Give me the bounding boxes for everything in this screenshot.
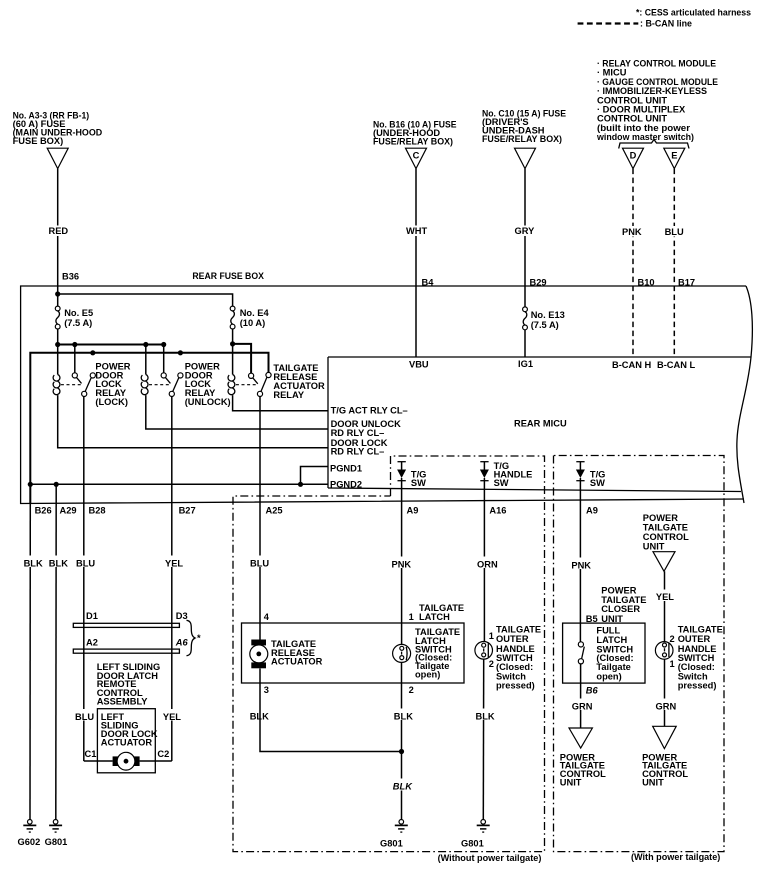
svg-text:BLK: BLK (393, 782, 413, 792)
svg-text:B-CAN L: B-CAN L (657, 360, 696, 370)
label WHT (wire gap) (404, 226, 429, 237)
node bus2 dots (90, 350, 183, 355)
svg-text:G801: G801 (461, 839, 484, 849)
bracket over D and E triangles (619, 140, 689, 149)
svg-text:2: 2 (670, 634, 675, 644)
wire E13 to MICU IG1 (524, 330, 526, 357)
ground G801 (latch switch) (380, 820, 408, 849)
svg-text:UNIT: UNIT (601, 614, 623, 624)
svg-text:RD RLY CL–: RD RLY CL– (331, 446, 385, 456)
svg-text:D3: D3 (176, 611, 188, 621)
node B36 junction dot (55, 291, 60, 296)
label GRN (full latch) (569, 699, 593, 712)
label YEL (power tailgate) (654, 590, 676, 603)
power tailgate closer unit label (601, 586, 646, 624)
wire E5 to bus (57, 329, 59, 375)
svg-text:PGND1: PGND1 (330, 463, 362, 473)
label PNK (wire gap) (620, 226, 644, 237)
svg-text:open): open) (415, 670, 440, 680)
wire T/G relay coil to MICU T/G ACT RLY CL (233, 395, 328, 411)
svg-text:FUSE/RELAY BOX): FUSE/RELAY BOX) (373, 136, 453, 146)
label ORN (A16) (475, 557, 499, 570)
power door lock relay (LOCK) (53, 345, 131, 407)
fuse A3-3 label (13, 110, 103, 146)
fuse C10 label (482, 109, 566, 144)
svg-text:YEL: YEL (656, 592, 674, 602)
wire BLU B17 dashed B-CAN (673, 169, 675, 357)
svg-text:GRN: GRN (572, 702, 593, 712)
connector triangle (fuse C10) (515, 148, 536, 168)
tailgate outer handle switch label (496, 625, 541, 691)
node E4 feed junction dot (230, 341, 235, 346)
label BLK italic (ground wire) (391, 779, 414, 792)
MICU pin label DOOR UNLOCK RD RLY CL (331, 419, 402, 438)
svg-text:(LOCK): (LOCK) (95, 397, 128, 407)
svg-text:CONTROL: CONTROL (643, 532, 689, 542)
svg-text:open): open) (596, 672, 621, 682)
label PNK (A9 full latch) (569, 558, 593, 571)
svg-text:ASSEMBLY: ASSEMBLY (97, 697, 149, 707)
svg-text:G801: G801 (45, 837, 68, 847)
fuse E5 (7.5 A) (55, 306, 93, 329)
wire C2 YEL into actuator motor (140, 760, 172, 762)
svg-text:B5: B5 (586, 614, 598, 624)
svg-text:: B-CAN line: : B-CAN line (640, 19, 692, 29)
svg-text:C2: C2 (157, 749, 169, 759)
motor (left sliding door lock actuator) (113, 752, 140, 770)
tailgate latch box (242, 623, 465, 683)
svg-text:T/G ACT RLY CL–: T/G ACT RLY CL– (331, 405, 408, 415)
svg-text:B36: B36 (62, 272, 79, 282)
svg-text:G602: G602 (18, 837, 41, 847)
power tailgate control unit label (top) (643, 513, 689, 552)
svg-text:1: 1 (489, 631, 494, 641)
wire RED B36 vertical (57, 169, 59, 307)
svg-text:2: 2 (489, 659, 494, 669)
svg-text:FUSE BOX): FUSE BOX) (13, 136, 64, 146)
svg-text:(Without power tailgate): (Without power tailgate) (438, 853, 542, 863)
svg-text:PGND2: PGND2 (330, 479, 362, 489)
svg-text:(10 A): (10 A) (240, 318, 266, 328)
svg-text:SW: SW (411, 478, 426, 488)
label BLU (B28) (74, 556, 95, 569)
legend: B-CAN line sample dashes (578, 22, 639, 24)
CESS brace and asterisk (187, 620, 202, 655)
T/G SW input symbol (tailgate latch switch input) (397, 462, 426, 488)
svg-text:RD RLY CL–: RD RLY CL– (331, 428, 385, 438)
wire PNK B10 dashed B-CAN (632, 169, 634, 357)
left sliding door latch remote control assembly label (97, 662, 161, 707)
svg-text:A9: A9 (407, 506, 419, 516)
svg-text:TAILGATE: TAILGATE (496, 625, 541, 635)
svg-text:OUTER: OUTER (496, 634, 529, 644)
label BLU (A25) (248, 556, 269, 569)
wire B36 to fuse E4 horizontal (58, 294, 233, 308)
wire A25 from T/G relay common (259, 397, 261, 640)
svg-text:C: C (413, 151, 420, 161)
svg-text:BLK: BLK (49, 559, 68, 569)
svg-text:IG1: IG1 (518, 359, 533, 369)
full latch switch symbol (578, 642, 584, 664)
wire actuator pin3 to latch switch ground wire (260, 669, 402, 752)
tailgate latch switch label (415, 627, 460, 680)
tailgate outer handle switch label (with power tailgate) (678, 625, 723, 691)
svg-text:(7.5 A): (7.5 A) (531, 320, 559, 330)
label BLK (B26) (21, 556, 43, 569)
svg-text:D: D (630, 151, 637, 161)
svg-text:4: 4 (264, 612, 270, 622)
wire A29 BLK to G801 (55, 484, 57, 819)
svg-text:LATCH: LATCH (596, 635, 627, 645)
tailgate release actuator label (271, 639, 323, 667)
svg-text:A2: A2 (86, 638, 98, 648)
svg-text:1: 1 (409, 612, 414, 622)
T/G HANDLE SW input symbol (480, 461, 532, 488)
label BLU (C1) (73, 709, 95, 722)
svg-text:B26: B26 (35, 506, 52, 516)
tailgate outer handle switch symbol (without power tailgate) (475, 642, 493, 660)
wire WHT B4 vertical (415, 169, 417, 357)
svg-text:2: 2 (409, 685, 414, 695)
svg-text:RELAY: RELAY (273, 390, 304, 400)
label BLK (A29) (47, 556, 69, 569)
svg-text:POWER: POWER (643, 513, 678, 523)
fuse B16 label (373, 120, 457, 147)
svg-text:REAR FUSE BOX: REAR FUSE BOX (192, 271, 264, 281)
control modules list label (596, 59, 718, 143)
svg-text:BLK: BLK (24, 559, 43, 569)
T/G SW input symbol (power tailgate variant) (576, 462, 606, 488)
svg-text:BLU: BLU (665, 227, 684, 237)
wire A9 PNK (full latch switch) (579, 478, 581, 644)
svg-text:No. E4: No. E4 (240, 308, 270, 318)
svg-text:SW: SW (590, 478, 605, 488)
svg-text:RED: RED (49, 226, 69, 236)
svg-text:BLU: BLU (250, 559, 269, 569)
svg-text:pressed): pressed) (678, 681, 717, 691)
svg-text:BLU: BLU (75, 712, 94, 722)
dash-dot harness box (without power tailgate) (233, 456, 545, 852)
label GRN (power handle) (653, 699, 677, 712)
svg-text:*: CESS articulated harness: *: CESS articulated harness (636, 8, 751, 18)
svg-text:REAR MICU: REAR MICU (514, 419, 567, 429)
svg-text:E: E (671, 151, 677, 161)
label PNK (A9 latch) (389, 557, 413, 570)
svg-text:YEL: YEL (163, 712, 181, 722)
svg-text:*: * (197, 633, 201, 643)
node junction dot at ground wire (399, 749, 404, 754)
svg-text:TAILGATE: TAILGATE (678, 625, 723, 635)
svg-text:VBU: VBU (409, 360, 429, 370)
tailgate release actuator relay (228, 363, 325, 400)
MICU pin label DOOR LOCK RD RLY CL (331, 438, 388, 457)
wire UNLOCK relay coil to MICU DOOR UNLOCK RD RLY CL (146, 395, 328, 429)
node PGND junction dots (28, 482, 303, 487)
fuse E13 (7.5 A) (523, 307, 565, 330)
svg-text:(With power tailgate): (With power tailgate) (631, 852, 720, 862)
full latch switch label (596, 626, 633, 682)
svg-text:A29: A29 (60, 506, 77, 516)
svg-text:GRN: GRN (656, 702, 677, 712)
wire PGND2 to ground wires (30, 483, 328, 485)
wire LOCK relay coil to MICU DOOR LOCK RD RLY CL (58, 395, 328, 448)
svg-text:PNK: PNK (392, 560, 412, 570)
CESS connector bar D1/D3 (73, 623, 179, 627)
wire B27 from UNLOCK relay common (171, 397, 173, 762)
label YEL (B27) (163, 556, 183, 569)
wire handle switch to ground (482, 659, 484, 819)
rear fuse box outline (21, 271, 753, 504)
rear MICU box (328, 357, 751, 492)
svg-text:3: 3 (264, 685, 269, 695)
svg-text:UNIT: UNIT (560, 778, 582, 788)
svg-text:D1: D1 (86, 611, 98, 621)
wire YEL from power tailgate control unit (664, 571, 666, 642)
wire A16 ORN (tailgate outer handle switch) (483, 478, 485, 642)
svg-text:window master switch): window master switch) (596, 132, 694, 142)
svg-text:No. E5: No. E5 (64, 308, 93, 318)
svg-text:(Closed:: (Closed: (678, 662, 715, 672)
svg-text:ACTUATOR: ACTUATOR (271, 657, 323, 667)
ground G602 (18, 820, 41, 848)
label BLU (wire gap) (663, 226, 686, 237)
svg-text:C1: C1 (85, 749, 97, 759)
connector triangle (power tailgate control unit, handle) (653, 726, 677, 748)
svg-text:B-CAN H: B-CAN H (612, 360, 652, 370)
label RED (wire gap) (47, 226, 69, 237)
svg-text:ACTUATOR: ACTUATOR (101, 738, 153, 748)
dash-dot harness box (with power tailgate) (554, 456, 725, 852)
svg-text:WHT: WHT (406, 226, 427, 236)
label BLK (handle switch) (473, 709, 495, 722)
motor (tailgate release actuator) (250, 640, 268, 669)
svg-text:ORN: ORN (477, 560, 498, 570)
svg-text:BLU: BLU (76, 559, 95, 569)
connector triangle (power tailgate control unit, full latch) (569, 728, 592, 748)
svg-text:Tailgate: Tailgate (596, 662, 630, 672)
svg-text:pressed): pressed) (496, 681, 535, 691)
wire C1 BLU into actuator motor (84, 760, 113, 762)
svg-text:FUSE/RELAY BOX): FUSE/RELAY BOX) (482, 134, 562, 144)
wire A9 PNK (tailgate latch switch) (401, 478, 403, 645)
connector triangle E (664, 148, 685, 168)
bus from fuse E5 to door lock relays (58, 344, 164, 346)
ground G801 (handle switch) (461, 820, 490, 849)
svg-text:B6: B6 (586, 686, 599, 696)
fuse E4 (10 A) (230, 306, 269, 329)
svg-text:BLK: BLK (394, 712, 413, 722)
svg-text:A6: A6 (175, 638, 189, 648)
label YEL (C2) (161, 709, 182, 722)
left sliding door lock actuator label (101, 712, 158, 748)
tailgate outer handle switch symbol (with power tailgate) (655, 642, 673, 660)
power tailgate control unit label (handle) (642, 752, 688, 787)
svg-text:(7.5 A): (7.5 A) (64, 318, 92, 328)
svg-text:POWER: POWER (601, 586, 636, 596)
wire B6 GRN to power tailgate control unit (580, 664, 582, 728)
wire GRY B29 vertical (524, 169, 526, 307)
connector triangle (power tailgate control unit, top) (653, 552, 675, 572)
wire latch switch to ground (401, 663, 403, 820)
svg-text:No. E13: No. E13 (531, 310, 565, 320)
svg-text:YEL: YEL (165, 559, 183, 569)
svg-text:1: 1 (670, 659, 675, 669)
wire PGND1 stub (301, 467, 329, 485)
svg-text:GRY: GRY (515, 226, 536, 236)
svg-text:G801: G801 (380, 839, 403, 849)
CESS connector bar A2/A6 (73, 649, 179, 653)
svg-text:PNK: PNK (622, 227, 642, 237)
wire E4 down to relay feed (232, 329, 234, 375)
svg-text:SW: SW (494, 478, 509, 488)
svg-text:LATCH: LATCH (419, 612, 450, 622)
svg-text:A25: A25 (266, 506, 283, 516)
wire B28 from LOCK relay common (83, 397, 85, 762)
svg-text:B28: B28 (89, 506, 106, 516)
full latch switch box (563, 623, 645, 683)
wire E4 feed to T/G relay contact (233, 344, 252, 373)
connector triangle A (fuse A3-3) (47, 148, 68, 168)
svg-text:B27: B27 (179, 506, 196, 516)
power tailgate control unit label (full latch) (560, 752, 606, 787)
svg-text:(Closed:: (Closed: (496, 662, 533, 672)
tailgate latch label (419, 603, 464, 622)
svg-text:BLK: BLK (476, 712, 495, 722)
svg-text:UNIT: UNIT (643, 542, 665, 552)
svg-text:TAILGATE: TAILGATE (643, 522, 688, 532)
svg-text:OUTER: OUTER (678, 634, 711, 644)
wire GRN to power tailgate control unit (handle) (664, 659, 666, 726)
label GRY (wire gap) (512, 226, 535, 237)
left sliding door lock actuator box (97, 709, 155, 773)
connector triangle C (fuse B16) (406, 148, 427, 168)
label BLK (actuator) (248, 709, 270, 722)
ground G801 (A29) (45, 820, 68, 848)
ground bus to relay contacts (30, 353, 268, 503)
svg-text:UNIT: UNIT (642, 778, 664, 788)
power door lock relay (UNLOCK) (141, 345, 230, 407)
svg-text:CLOSER: CLOSER (601, 604, 640, 614)
connector triangle D (623, 148, 644, 168)
tailgate latch switch symbol (393, 644, 411, 662)
svg-text:PNK: PNK (571, 561, 591, 571)
svg-text:A16: A16 (489, 506, 506, 516)
label BLK (latch switch) (392, 709, 414, 722)
svg-text:A9: A9 (586, 506, 598, 516)
node bus1 dots (55, 342, 166, 347)
svg-text:(UNLOCK): (UNLOCK) (185, 397, 231, 407)
wire B26 BLK to G602 (29, 484, 31, 819)
